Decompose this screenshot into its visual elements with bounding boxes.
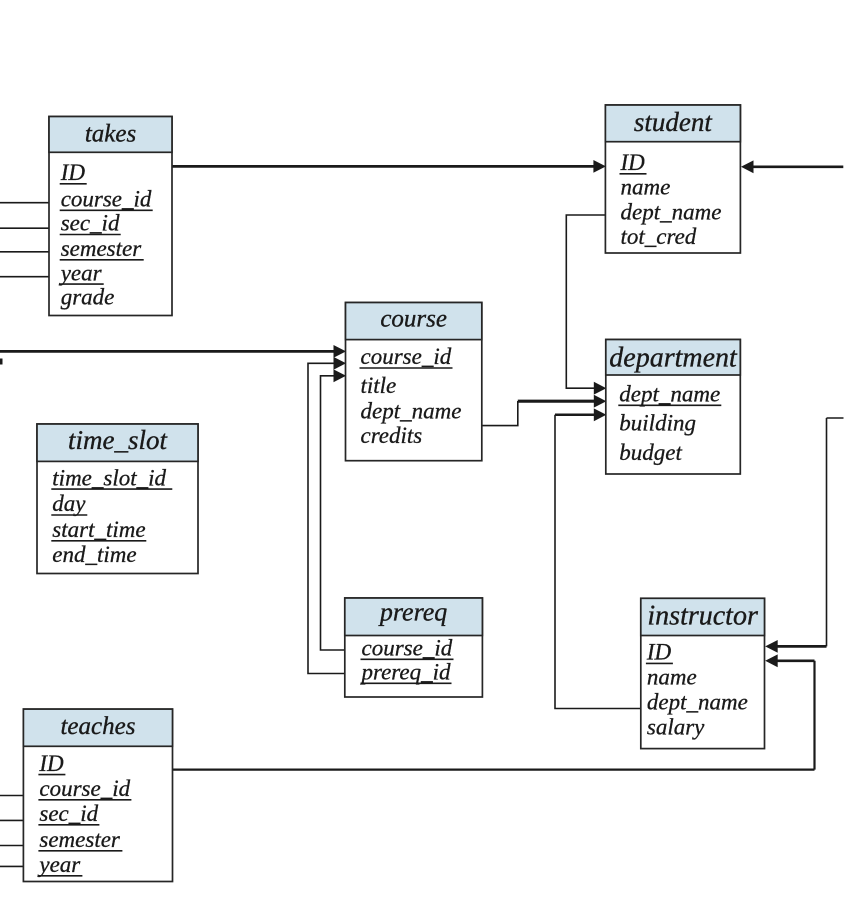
svg-text:dept_name: dept_name [619, 382, 720, 407]
svg-text:grade: grade [61, 285, 115, 310]
svg-text:dept_name: dept_name [621, 199, 722, 224]
svg-text:year: year [59, 260, 103, 285]
svg-text:course_id: course_id [61, 187, 152, 212]
svg-text:teaches: teaches [60, 713, 135, 740]
svg-text:prereq_id: prereq_id [360, 660, 452, 685]
svg-text:start_time: start_time [52, 517, 145, 542]
svg-text:semester: semester [39, 827, 121, 852]
svg-text:title: title [361, 373, 397, 398]
svg-text:day: day [52, 491, 86, 516]
svg-text:instructor: instructor [647, 600, 758, 631]
svg-text:year: year [37, 852, 81, 877]
svg-text:course_id: course_id [361, 344, 452, 369]
svg-text:semester: semester [61, 236, 143, 261]
svg-text:course_id: course_id [39, 776, 130, 801]
svg-text:end_time: end_time [52, 542, 136, 567]
svg-text:ID: ID [646, 640, 672, 665]
svg-text:department: department [609, 343, 738, 374]
svg-text:takes: takes [85, 121, 136, 148]
svg-text:name: name [621, 175, 671, 200]
svg-text:salary: salary [647, 715, 705, 740]
svg-text:sec_id: sec_id [61, 211, 120, 236]
svg-text:time_slot: time_slot [68, 425, 168, 455]
svg-text:course: course [380, 306, 447, 333]
svg-text:building: building [619, 411, 696, 436]
svg-text:time_slot_id: time_slot_id [52, 465, 166, 490]
svg-text:credits: credits [361, 423, 423, 448]
svg-text:ID: ID [620, 150, 646, 175]
svg-text:tot_cred: tot_cred [621, 224, 697, 249]
svg-text:course_id: course_id [362, 636, 453, 661]
svg-text:prereq: prereq [378, 598, 447, 627]
svg-text:name: name [647, 665, 697, 690]
svg-text:student: student [634, 107, 713, 137]
svg-text:dept_name: dept_name [647, 690, 748, 715]
svg-text:dept_name: dept_name [361, 399, 462, 424]
svg-text:ID: ID [38, 751, 64, 776]
svg-text:ID: ID [60, 160, 86, 185]
svg-text:sec_id: sec_id [39, 801, 98, 826]
svg-text:budget: budget [619, 440, 682, 465]
